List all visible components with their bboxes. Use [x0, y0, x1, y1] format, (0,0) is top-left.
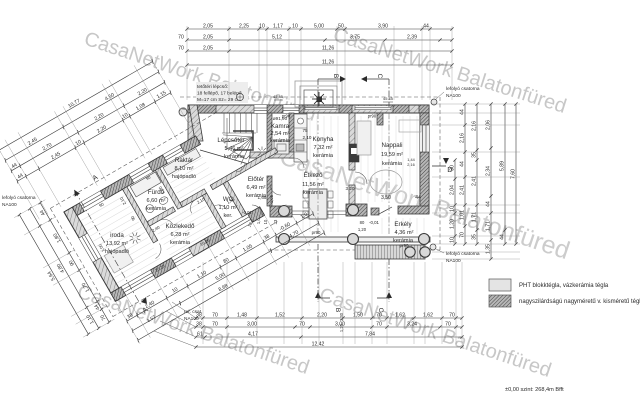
svg-text:2,34: 2,34 — [486, 166, 492, 176]
svg-text:2,41: 2,41 — [472, 176, 478, 186]
room texture lines nappali — [303, 116, 424, 234]
svg-text:1,48: 1,48 — [237, 313, 247, 319]
kamra cupboard — [274, 141, 289, 154]
downpipe bottom-right — [430, 244, 436, 250]
svg-text:6,49 m²: 6,49 m² — [247, 185, 266, 191]
svg-text:5,00: 5,00 — [314, 24, 324, 30]
svg-text:45 45: 45 45 — [383, 96, 394, 101]
dimension chain right col 4 — [486, 102, 493, 260]
section line C — [388, 79, 390, 107]
svg-text:80: 80 — [360, 220, 365, 225]
svg-text:44: 44 — [423, 24, 429, 30]
dimension chain right col 6 — [511, 102, 518, 245]
svg-text:-0,01: -0,01 — [369, 220, 380, 225]
svg-text:NA100: NA100 — [446, 93, 461, 99]
svg-text:1,52: 1,52 — [275, 313, 285, 319]
wing door arcs — [150, 243, 165, 258]
svg-text:B: B — [332, 74, 339, 78]
svg-text:1,62: 1,62 — [395, 313, 405, 319]
stair center wall — [233, 131, 253, 150]
svg-text:70: 70 — [376, 313, 382, 319]
svg-text:hajópadló: hajópadló — [172, 174, 196, 180]
circled symbols top — [237, 94, 244, 101]
top extension lines — [187, 26, 452, 100]
top wall piers — [188, 105, 216, 113]
legend swatch PHT — [489, 279, 511, 291]
svg-text:3,30: 3,30 — [339, 312, 344, 321]
svg-text:-0,01: -0,01 — [242, 210, 252, 215]
svg-text:70: 70 — [212, 313, 218, 319]
nappali top wall stub — [377, 113, 383, 125]
svg-text:nagyszilárdságú nagyméretű v.: nagyszilárdságú nagyméretű v. kisméretű … — [519, 299, 640, 305]
dimension chain top row 3 — [178, 46, 453, 53]
bottom chain diagonal leaders — [172, 302, 196, 318]
dimension chain right col 3 — [472, 102, 479, 245]
svg-text:kerámia: kerámia — [170, 240, 191, 246]
svg-text:7,84: 7,84 — [365, 332, 375, 338]
section line B — [317, 79, 319, 107]
right wall window — [420, 125, 429, 152]
svg-text:2,16: 2,16 — [407, 163, 414, 167]
section line A — [74, 190, 140, 304]
lower-right extension lines — [116, 195, 326, 344]
wing roof overhang dashed — [50, 113, 215, 208]
svg-text:2,41: 2,41 — [460, 185, 466, 195]
svg-text:19,59 m²: 19,59 m² — [381, 152, 403, 158]
svg-text:Előtér: Előtér — [248, 176, 264, 183]
svg-text:C: C — [376, 74, 383, 79]
svg-text:61: 61 — [197, 332, 203, 338]
svg-text:kerámia: kerámia — [313, 153, 334, 159]
svg-text:10: 10 — [450, 237, 456, 243]
svg-text:Nappali: Nappali — [382, 142, 403, 149]
svg-text:3,00: 3,00 — [335, 322, 345, 328]
south porch pier left with column — [270, 206, 292, 217]
top exterior wall — [188, 105, 429, 113]
svg-text:70: 70 — [460, 232, 466, 238]
sun symbol lepcso — [257, 147, 268, 158]
svg-text:10: 10 — [259, 24, 265, 30]
svg-text:70: 70 — [449, 313, 455, 319]
dining table — [309, 189, 327, 219]
wing floor boards iroda — [82, 152, 238, 285]
svg-text:±0,00 szint: 268,4m Bfft: ±0,00 szint: 268,4m Bfft — [505, 387, 564, 393]
section marker C top — [367, 78, 389, 80]
svg-text:70: 70 — [212, 322, 218, 328]
svg-text:4,36 m²: 4,36 m² — [395, 230, 414, 236]
dimension chain bottom row 4 — [194, 342, 463, 349]
wc right wall — [223, 181, 247, 217]
wc left wall — [202, 193, 226, 229]
wall furdo raktar divider — [155, 168, 182, 209]
svg-text:70: 70 — [445, 322, 451, 328]
door arcs — [294, 158, 304, 168]
svg-text:4,17: 4,17 — [248, 332, 258, 338]
svg-text:1,20: 1,20 — [450, 219, 456, 229]
downpipe top-right — [431, 99, 437, 105]
svg-text:2,10: 2,10 — [303, 135, 312, 140]
wing LR exterior wall — [111, 207, 265, 301]
svg-text:5,89: 5,89 — [500, 161, 506, 171]
svg-text:2,05: 2,05 — [203, 46, 213, 52]
left wall of staircase — [188, 113, 196, 143]
svg-text:Lépcsőtér: Lépcsőtér — [217, 137, 244, 144]
detail marker D — [432, 165, 446, 167]
dimension chain top row 1 — [185, 24, 453, 31]
terrace steps hatch — [355, 245, 425, 259]
svg-text:70: 70 — [178, 35, 184, 41]
svg-text:3,50: 3,50 — [381, 195, 391, 201]
svg-text:5,46 m²: 5,46 m² — [225, 146, 244, 152]
south porch pier right with column — [346, 204, 367, 216]
svg-text:lefolyó csatorna: lefolyó csatorna — [446, 251, 480, 257]
dimension chain bottom row 2 — [194, 322, 463, 329]
svg-text:3,24: 3,24 — [407, 322, 417, 328]
svg-text:1,05: 1,05 — [269, 194, 274, 203]
svg-text:44: 44 — [486, 201, 492, 207]
svg-text:6,60 m²: 6,60 m² — [147, 198, 166, 204]
dimension chain bottom row 1 — [194, 313, 463, 320]
svg-text:NA100: NA100 — [2, 202, 17, 208]
svg-text:iroda: iroda — [110, 232, 124, 239]
wing rotated group — [50, 96, 307, 317]
svg-text:kerámia: kerámia — [382, 161, 403, 167]
svg-text:44: 44 — [460, 161, 466, 167]
svg-text:Konyha: Konyha — [313, 136, 335, 143]
svg-text:Fürdő: Fürdő — [148, 189, 165, 196]
svg-text:10: 10 — [292, 24, 298, 30]
svg-text:kerámia: kerámia — [246, 193, 267, 199]
bottom extension lines — [203, 262, 462, 344]
wing SW end exterior wall — [64, 207, 124, 301]
svg-text:2,16: 2,16 — [472, 121, 478, 131]
svg-text:1,62: 1,62 — [423, 313, 433, 319]
svg-text:kerámia: kerámia — [146, 206, 167, 212]
svg-text:ref. csat.: ref. csat. — [184, 309, 202, 315]
upper-left extension lines — [0, 56, 193, 219]
right exterior wall — [420, 113, 429, 213]
column at 353 — [348, 234, 359, 245]
dimension chain top row 4 — [185, 60, 453, 67]
svg-text:2,05: 2,05 — [203, 24, 213, 30]
svg-text:11,26: 11,26 — [322, 60, 335, 66]
svg-text:44: 44 — [415, 195, 421, 201]
svg-text:kerámia: kerámia — [303, 190, 324, 196]
furniture raktar shelf — [163, 149, 200, 176]
svg-text:2,54 m²: 2,54 m² — [271, 131, 290, 137]
svg-text:M=17 cm Sz= 29 cm: M=17 cm Sz= 29 cm — [197, 97, 241, 103]
svg-text:ker.: ker. — [223, 213, 232, 219]
svg-text:7,60: 7,60 — [511, 169, 517, 179]
svg-text:lefolyó csatorna: lefolyó csatorna — [2, 195, 36, 201]
dimension chain right col 2 — [460, 102, 467, 245]
SW end extension lines — [14, 200, 114, 338]
legend swatch nagyszilardsagu — [489, 295, 511, 307]
star symbol iroda — [129, 232, 140, 243]
konyha-nappali wall — [349, 113, 355, 170]
erkely top wall — [398, 206, 429, 214]
eloter door arc — [252, 205, 262, 215]
svg-text:1,01: 1,01 — [460, 210, 466, 220]
section marker B top — [318, 78, 340, 80]
svg-text:hajópadló: hajópadló — [105, 249, 129, 255]
downpipe top-left — [179, 108, 187, 116]
svg-text:3,00: 3,00 — [247, 322, 257, 328]
svg-text:75: 75 — [302, 128, 308, 133]
svg-text:45 45: 45 45 — [273, 94, 284, 99]
corridor north wall — [147, 207, 175, 226]
dimension chain bottom row 3 — [194, 332, 463, 339]
stair bottom diagonal edge — [200, 150, 252, 165]
roof overhang dashed outline main block — [180, 96, 440, 98]
svg-text:NA100: NA100 — [446, 258, 461, 264]
svg-text:Raktár: Raktár — [175, 157, 193, 164]
svg-text:18 fellépő, 17 belépő: 18 fellépő, 17 belépő — [197, 91, 242, 97]
svg-text:1,44: 1,44 — [407, 158, 414, 162]
svg-text:10: 10 — [450, 206, 456, 212]
kitchen counter — [294, 114, 307, 162]
svg-text:1,35: 1,35 — [486, 244, 492, 254]
SW end chains — [35, 201, 111, 325]
svg-text:2,04: 2,04 — [450, 185, 456, 195]
furniture iroda desk — [104, 245, 133, 273]
svg-text:pr90: pr90 — [312, 230, 321, 235]
column at 284 — [279, 234, 290, 245]
svg-text:NA100: NA100 — [184, 316, 199, 322]
svg-text:8,10 m²: 8,10 m² — [175, 166, 194, 172]
junction wall wing to block — [189, 105, 203, 141]
svg-text:1,71: 1,71 — [472, 212, 478, 222]
etkezo-eloter wall — [267, 176, 272, 206]
svg-text:3,90: 3,90 — [378, 24, 388, 30]
svg-text:38: 38 — [196, 322, 202, 328]
svg-text:2,25: 2,25 — [239, 24, 249, 30]
svg-text:1,71: 1,71 — [486, 221, 492, 231]
svg-text:11,26: 11,26 — [322, 46, 335, 52]
svg-text:Étkező: Étkező — [304, 172, 323, 179]
svg-text:70: 70 — [376, 322, 382, 328]
svg-text:5,12: 5,12 — [272, 35, 282, 41]
svg-text:50: 50 — [338, 24, 344, 30]
dimension chain right col 1 — [450, 158, 457, 245]
svg-text:70: 70 — [178, 46, 184, 52]
svg-text:1,10 m²: 1,10 m² — [219, 205, 238, 211]
svg-text:tetőtéri lépcső:: tetőtéri lépcső: — [197, 84, 228, 90]
dimension chain top row 2 — [178, 35, 453, 42]
svg-text:33: 33 — [273, 219, 278, 224]
lower-right diagonal bundle — [124, 209, 315, 324]
kamra left wall — [267, 113, 272, 158]
svg-text:B: B — [334, 308, 341, 312]
kamra right wall — [289, 113, 294, 158]
svg-text:Erkély: Erkély — [394, 221, 412, 228]
svg-text:lefolyó csatorna: lefolyó csatorna — [446, 86, 480, 92]
svg-text:1,20: 1,20 — [358, 227, 367, 232]
sofa nappali — [357, 121, 371, 155]
diagonal dimension bundle upper-left — [0, 25, 327, 367]
staircase treads — [222, 113, 257, 167]
svg-text:Közlekedő: Közlekedő — [166, 223, 195, 230]
svg-text:7,32 m²: 7,32 m² — [314, 145, 333, 151]
svg-text:2,16: 2,16 — [460, 133, 466, 143]
svg-text:WC: WC — [223, 196, 234, 203]
column at 424 — [419, 234, 430, 245]
chimney nested rectangles — [295, 81, 342, 107]
dimension chain right col 5 — [500, 102, 507, 245]
svg-text:13,92 m²: 13,92 m² — [106, 241, 128, 247]
svg-text:2,20: 2,20 — [317, 313, 327, 319]
svg-text:1,17: 1,17 — [273, 24, 283, 30]
svg-text:12,42: 12,42 — [312, 342, 325, 348]
erkely door block — [371, 208, 379, 215]
svg-text:2,05: 2,05 — [203, 35, 213, 41]
wall iroda east — [122, 187, 157, 243]
svg-text:11,56 m²: 11,56 m² — [302, 182, 324, 188]
svg-text:2,39: 2,39 — [407, 35, 417, 41]
svg-text:1,50: 1,50 — [353, 313, 363, 319]
wall below kamra — [250, 152, 294, 158]
svg-text:3,20: 3,20 — [346, 186, 355, 191]
right extension lines — [432, 104, 520, 259]
svg-text:6,28 m²: 6,28 m² — [171, 232, 190, 238]
svg-text:PHT blokktégla, vázkerámia tég: PHT blokktégla, vázkerámia tégla — [519, 283, 609, 289]
furniture bathtub — [130, 172, 161, 197]
porch beam with columns — [276, 237, 430, 242]
svg-text:3,75: 3,75 — [350, 35, 360, 41]
svg-text:pr90: pr90 — [400, 243, 409, 248]
svg-text:44: 44 — [460, 109, 466, 115]
svg-text:35: 35 — [472, 234, 478, 240]
top wall windows — [254, 105, 267, 113]
svg-text:35: 35 — [472, 152, 478, 158]
svg-text:pr90: pr90 — [368, 114, 377, 119]
terrace corner columns — [405, 247, 415, 257]
svg-text:30: 30 — [450, 165, 456, 171]
svg-text:kerámia: kerámia — [224, 154, 245, 160]
tetoteri lepcso note — [196, 82, 248, 103]
fireplace dark — [349, 144, 359, 162]
svg-text:kerámia: kerámia — [270, 138, 291, 144]
wing UL exterior wall — [64, 136, 200, 220]
svg-text:Kamra: Kamra — [271, 123, 290, 130]
french door lines between piers — [292, 210, 346, 212]
svg-text:44: 44 — [500, 234, 506, 240]
svg-text:pr90: pr90 — [282, 114, 291, 119]
